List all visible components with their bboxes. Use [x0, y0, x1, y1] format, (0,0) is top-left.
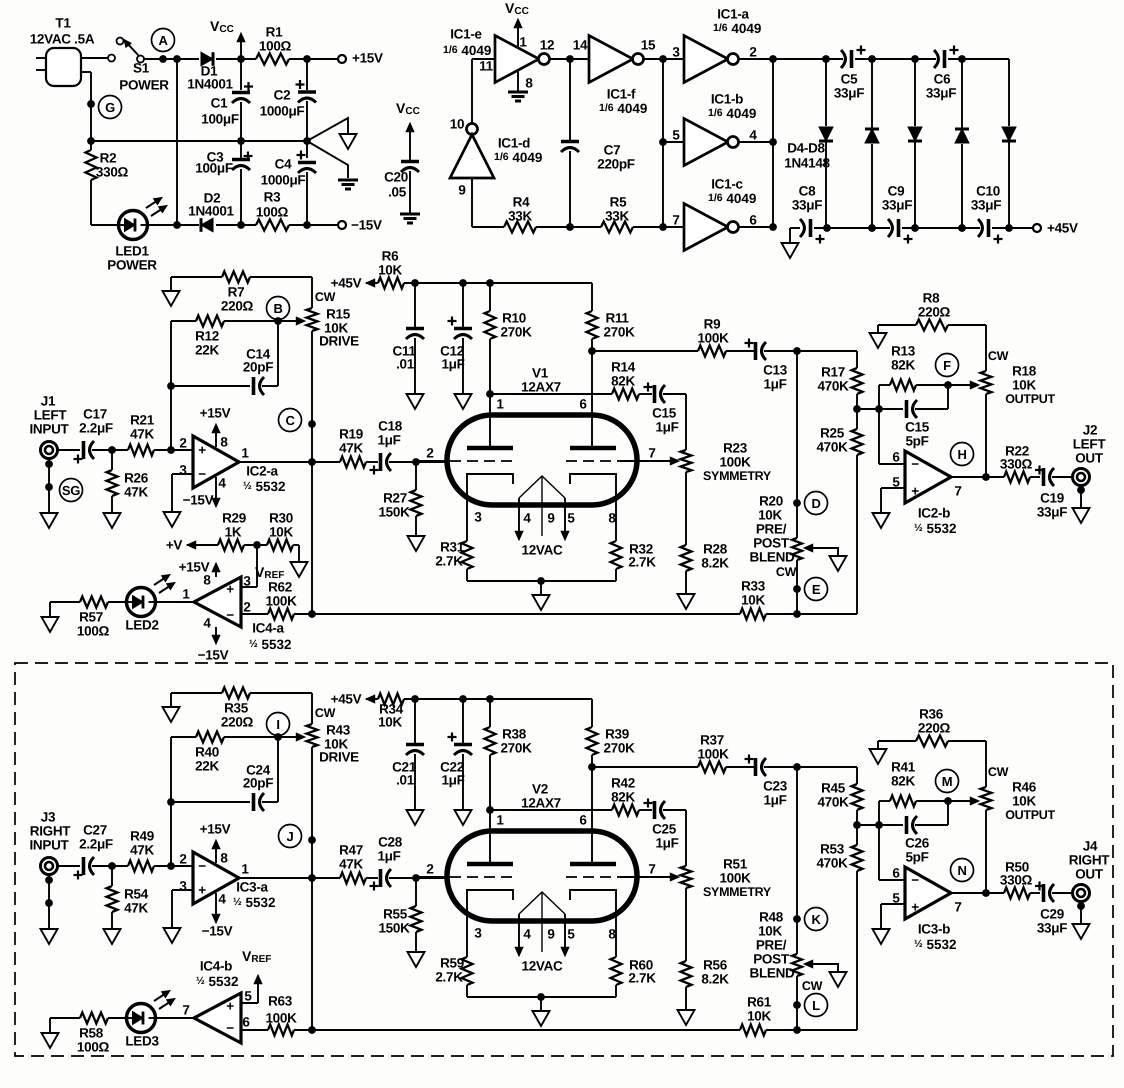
- net VREF: [241, 948, 271, 1003]
- power -15V: [183, 477, 220, 508]
- junction: [769, 55, 777, 63]
- junction: [566, 55, 574, 63]
- resistor R56 8.2K: [681, 958, 730, 1011]
- capacitor C11 .01: [392, 283, 424, 409]
- jack J1: [29, 394, 69, 459]
- svg-text:R51: R51: [723, 857, 748, 872]
- pin 1: [490, 810, 504, 862]
- plate: [570, 862, 616, 867]
- svg-text:5: 5: [567, 927, 575, 942]
- svg-text:3: 3: [672, 45, 680, 60]
- ground: [830, 972, 847, 987]
- svg-text:CW: CW: [988, 349, 1009, 363]
- svg-text:SYMMETRY: SYMMETRY: [703, 469, 772, 483]
- svg-text:R53: R53: [820, 842, 845, 857]
- junction: [769, 138, 777, 146]
- svg-text:H: H: [957, 447, 966, 462]
- svg-text:S1: S1: [133, 61, 150, 76]
- tube V2 12AX7: [447, 782, 637, 922]
- wire: [951, 476, 1004, 478]
- svg-text:R55: R55: [383, 907, 408, 922]
- tube V1 12AX7: [447, 366, 637, 506]
- node G: [87, 96, 121, 119]
- resistor R10 270K: [485, 283, 533, 394]
- node B: [267, 297, 290, 320]
- wire: [250, 693, 312, 724]
- wire: [881, 488, 905, 513]
- svg-text:2: 2: [179, 436, 186, 451]
- svg-text:−15V: −15V: [198, 648, 229, 663]
- svg-text:R48: R48: [759, 910, 784, 925]
- pot R48 10K PRE/POST BLEND: [750, 910, 823, 994]
- svg-text:POWER: POWER: [107, 258, 157, 273]
- svg-text:+15V: +15V: [200, 822, 231, 837]
- wire: [312, 1029, 740, 1031]
- resistor R25 470K: [816, 426, 862, 456]
- svg-text:8.2K: 8.2K: [701, 556, 729, 571]
- resistor R9 100K: [697, 317, 729, 357]
- svg-text:R49: R49: [130, 829, 154, 844]
- pot R15 10K DRIVE: [307, 290, 360, 349]
- node A: [152, 29, 175, 52]
- svg-text:−: −: [198, 859, 206, 874]
- junction: [167, 382, 175, 390]
- svg-text:R1: R1: [266, 25, 283, 40]
- resistor R36 220: [878, 707, 986, 747]
- svg-text:1: 1: [519, 35, 527, 50]
- svg-text:R29: R29: [222, 511, 246, 526]
- wire: [171, 276, 222, 278]
- svg-text:C23: C23: [763, 779, 788, 794]
- svg-text:CW: CW: [988, 765, 1009, 779]
- resistor R60 2.7K: [611, 957, 657, 997]
- capacitor C6 33uF: [926, 46, 959, 101]
- node N: [951, 859, 974, 882]
- grid: [416, 446, 516, 462]
- wire: [948, 58, 1009, 60]
- capacitor C12 1uF: [440, 283, 472, 409]
- svg-text:7: 7: [954, 900, 961, 915]
- svg-text:IC4-a: IC4-a: [252, 621, 284, 636]
- svg-text:LED2: LED2: [125, 618, 158, 633]
- terminal -15V: [338, 218, 382, 233]
- svg-text:+: +: [911, 484, 919, 499]
- junction: [237, 137, 245, 145]
- svg-text:R45: R45: [821, 781, 846, 796]
- ground: [830, 556, 847, 571]
- svg-text:C7: C7: [604, 143, 621, 158]
- wire: [311, 331, 313, 614]
- svg-text:R63: R63: [268, 994, 293, 1009]
- wire: [857, 824, 903, 826]
- svg-text:J1: J1: [41, 394, 56, 409]
- ground: [41, 513, 58, 528]
- junction: [944, 381, 952, 389]
- capacitor C8 33uF: [792, 184, 825, 244]
- svg-text:10K: 10K: [378, 263, 402, 278]
- svg-text:R36: R36: [919, 707, 944, 722]
- svg-text:8: 8: [220, 851, 228, 866]
- svg-text:2.2μF: 2.2μF: [79, 837, 113, 852]
- svg-text:14: 14: [573, 38, 588, 53]
- svg-text:1μF: 1μF: [377, 849, 400, 864]
- svg-text:1μF: 1μF: [763, 793, 786, 808]
- wire: [389, 877, 447, 879]
- svg-text:R59: R59: [440, 956, 464, 971]
- svg-text:K: K: [811, 912, 821, 927]
- svg-text:C8: C8: [799, 184, 816, 199]
- wire: [404, 282, 592, 284]
- svg-text:PRE/: PRE/: [756, 522, 787, 537]
- svg-text:1: 1: [496, 813, 504, 828]
- resistor R57 100: [50, 597, 128, 639]
- junction: [486, 806, 494, 814]
- junction: [173, 221, 181, 229]
- ground: [873, 929, 890, 944]
- resistor R11 270K: [587, 283, 636, 351]
- diode D7: [955, 59, 969, 228]
- wire: [878, 385, 880, 464]
- svg-text:1: 1: [182, 587, 190, 602]
- svg-text:R35: R35: [224, 701, 249, 716]
- svg-text:33μF: 33μF: [971, 198, 1001, 213]
- svg-text:220Ω: 220Ω: [918, 305, 951, 320]
- svg-text:12AX7: 12AX7: [521, 380, 561, 395]
- junction: [911, 55, 966, 63]
- svg-text:7: 7: [954, 484, 961, 499]
- svg-text:3: 3: [179, 463, 187, 478]
- wire: [45, 874, 53, 929]
- svg-text:LED1: LED1: [115, 244, 149, 259]
- ground: [870, 325, 887, 348]
- wire: [772, 59, 774, 227]
- wire: [796, 767, 798, 954]
- junction: [303, 55, 311, 63]
- capacitor C27 2.2uF: [74, 823, 113, 880]
- svg-text:R46: R46: [1012, 780, 1037, 795]
- svg-text:15: 15: [641, 38, 656, 53]
- net +V: [166, 538, 218, 553]
- junction: [853, 821, 861, 829]
- wire: [311, 747, 313, 1030]
- svg-text:E: E: [812, 582, 821, 597]
- resistor R53 470K: [816, 842, 862, 872]
- node L: [805, 994, 828, 1017]
- svg-text:R17: R17: [821, 365, 845, 380]
- LED1 POWER: [107, 198, 167, 273]
- capacitor C20 .05: [384, 100, 420, 223]
- svg-text:R61: R61: [747, 995, 772, 1010]
- svg-text:CW: CW: [802, 979, 823, 993]
- svg-text:100K: 100K: [719, 871, 751, 886]
- wire: [389, 461, 447, 463]
- capacitor C18 1uF: [370, 419, 403, 475]
- wire: [92, 449, 128, 451]
- svg-text:470K: 470K: [816, 440, 848, 455]
- svg-text:V2: V2: [532, 782, 548, 797]
- ground: [533, 581, 550, 610]
- svg-text:5: 5: [244, 989, 252, 1004]
- jack J4: [1069, 839, 1111, 902]
- svg-text:LEFT: LEFT: [34, 408, 68, 423]
- ground: [1073, 924, 1090, 939]
- power -15V: [198, 627, 229, 663]
- svg-text:82K: 82K: [611, 374, 635, 389]
- svg-text:POST: POST: [753, 536, 790, 551]
- wire: [404, 698, 592, 700]
- ground: [307, 118, 357, 149]
- op-amp IC3-a: [179, 851, 275, 910]
- svg-text:C: C: [285, 413, 295, 428]
- svg-text:½ 5532: ½ 5532: [196, 974, 239, 989]
- resistor R47 47K: [339, 843, 378, 884]
- wire: [856, 455, 858, 614]
- svg-text:1000μF: 1000μF: [261, 173, 306, 188]
- wire: [662, 59, 664, 227]
- svg-text:−: −: [226, 608, 234, 623]
- capacitor C15 5pF: [905, 400, 930, 449]
- pot R43 10K DRIVE: [307, 706, 360, 765]
- wire: [144, 58, 199, 60]
- grid: [416, 862, 516, 878]
- svg-text:R21: R21: [130, 413, 155, 428]
- wire: [796, 560, 798, 614]
- capacitor C10 33uF: [971, 184, 1003, 244]
- wire: [881, 904, 905, 929]
- svg-text:150K: 150K: [378, 921, 410, 936]
- svg-text:R56: R56: [703, 958, 728, 973]
- svg-text:R23: R23: [723, 441, 748, 456]
- cathode: [467, 890, 513, 957]
- svg-text:R38: R38: [502, 727, 527, 742]
- svg-text:12VAC .5A: 12VAC .5A: [30, 32, 95, 47]
- svg-text:R31: R31: [440, 540, 465, 555]
- svg-text:IC2-b: IC2-b: [918, 506, 950, 521]
- wire: [639, 809, 652, 811]
- resistor R55 150K: [378, 878, 421, 952]
- cathode: [570, 474, 616, 541]
- resistor R63 100K: [241, 994, 313, 1036]
- svg-text:½ 5532: ½ 5532: [914, 937, 957, 952]
- svg-text:CW: CW: [776, 565, 797, 579]
- capacitor C15 1uF: [644, 383, 679, 435]
- wiper arrow: [278, 317, 305, 325]
- svg-text:J4: J4: [1083, 839, 1098, 854]
- svg-text:4: 4: [749, 128, 757, 143]
- ground: [678, 594, 695, 609]
- inverter IC1-c: [672, 177, 757, 251]
- resistor R7 220: [221, 272, 254, 314]
- junction: [911, 224, 966, 232]
- resistor R58 100: [50, 1013, 128, 1055]
- junction: [237, 55, 245, 63]
- capacitor C17 2.2uF: [74, 407, 113, 464]
- wire: [238, 461, 340, 463]
- svg-text:.05: .05: [388, 185, 407, 200]
- resistor R30 10K: [267, 511, 299, 563]
- capacitor C19 33uF: [1035, 466, 1067, 520]
- svg-text:20pF: 20pF: [243, 776, 273, 791]
- wire: [467, 580, 616, 582]
- svg-text:+45V: +45V: [331, 276, 362, 291]
- svg-text:2.2μF: 2.2μF: [79, 421, 113, 436]
- resistor R22 330: [1000, 444, 1040, 483]
- ground: [104, 513, 121, 528]
- svg-text:+: +: [226, 582, 234, 597]
- svg-text:33μF: 33μF: [1037, 505, 1067, 520]
- jack J3: [29, 810, 71, 875]
- svg-text:OUT: OUT: [1075, 867, 1104, 882]
- wire: [951, 892, 1004, 894]
- svg-text:R12: R12: [195, 329, 219, 344]
- svg-text:2: 2: [749, 45, 756, 60]
- svg-text:R26: R26: [124, 471, 149, 486]
- node E: [805, 578, 828, 601]
- svg-text:C20: C20: [384, 170, 408, 185]
- ground: [870, 741, 887, 764]
- junction: [793, 347, 801, 355]
- inverter IC1-f: [573, 36, 656, 116]
- junction: [659, 138, 667, 146]
- wire: [726, 766, 754, 768]
- svg-text:11: 11: [479, 59, 493, 74]
- resistor R6 10K: [378, 249, 404, 289]
- junction: [411, 695, 494, 703]
- svg-text:C28: C28: [378, 835, 403, 850]
- svg-text:RIGHT: RIGHT: [30, 824, 72, 839]
- svg-text:1N4148: 1N4148: [784, 156, 830, 171]
- svg-text:R11: R11: [605, 311, 629, 326]
- svg-text:100K: 100K: [265, 1011, 297, 1026]
- pot R46 10K OUTPUT: [981, 765, 1056, 822]
- svg-text:IC3-a: IC3-a: [236, 880, 268, 895]
- svg-text:−15V: −15V: [351, 218, 382, 233]
- svg-text:270K: 270K: [603, 741, 635, 756]
- capacitor C7 220pF: [561, 59, 635, 227]
- wire: [773, 58, 843, 60]
- wire: [155, 601, 195, 603]
- diode D5: [865, 59, 879, 228]
- svg-text:R39: R39: [605, 727, 629, 742]
- op-amp IC2-a: [179, 435, 285, 494]
- power +15V: [200, 406, 231, 448]
- wire: [147, 224, 200, 226]
- svg-text:+V: +V: [166, 538, 183, 553]
- capacitor C2 1000uF: [260, 59, 316, 141]
- wire: [592, 766, 698, 768]
- capacitor C3 100uF: [195, 141, 252, 225]
- wire: [726, 350, 754, 352]
- svg-text:R4: R4: [513, 195, 530, 210]
- svg-text:R13: R13: [891, 344, 916, 359]
- ground: [41, 929, 58, 944]
- svg-text:R54: R54: [124, 887, 149, 902]
- svg-text:C4: C4: [275, 157, 292, 172]
- svg-text:C29: C29: [1040, 907, 1064, 922]
- svg-text:R5: R5: [610, 195, 627, 210]
- resistor R17 470K: [817, 365, 862, 395]
- svg-text:R58: R58: [79, 1026, 104, 1041]
- svg-text:INPUT: INPUT: [29, 422, 69, 437]
- svg-text:LEFT: LEFT: [1073, 437, 1107, 452]
- wire: [663, 394, 686, 450]
- wire: [856, 767, 858, 784]
- junction: [108, 862, 116, 870]
- svg-text:IC4-b: IC4-b: [200, 959, 232, 974]
- node K: [805, 908, 828, 931]
- switch S1 POWER: [117, 38, 170, 93]
- ground: [164, 512, 181, 527]
- svg-text:47K: 47K: [124, 901, 148, 916]
- svg-text:C17: C17: [83, 407, 107, 422]
- wire: [490, 809, 612, 811]
- svg-text:33μF: 33μF: [926, 86, 956, 101]
- svg-text:F: F: [943, 358, 951, 373]
- resistor R19 47K: [339, 427, 378, 468]
- junction: [87, 137, 95, 145]
- svg-text:1N4001: 1N4001: [187, 77, 233, 92]
- junction: [982, 473, 990, 481]
- op-amp IC2-b: [892, 450, 961, 536]
- resistor R14 82K: [611, 360, 639, 400]
- wire: [879, 463, 905, 465]
- capacitor C23 1uF: [745, 755, 788, 808]
- junction: [982, 889, 990, 897]
- svg-text:100Ω: 100Ω: [259, 39, 292, 54]
- svg-text:100μF: 100μF: [201, 112, 239, 127]
- resistor R29 1K: [218, 511, 267, 551]
- wire: [879, 879, 905, 881]
- wire: [490, 393, 612, 395]
- wire: [592, 350, 698, 352]
- svg-text:1/6 4049: 1/6 4049: [443, 43, 491, 58]
- junction: [1005, 224, 1013, 232]
- svg-text:20pF: 20pF: [243, 360, 273, 375]
- svg-text:270K: 270K: [500, 325, 532, 340]
- svg-text:DRIVE: DRIVE: [319, 334, 359, 349]
- svg-text:6: 6: [579, 813, 587, 828]
- node F: [936, 354, 959, 377]
- resistor R40 22K: [171, 732, 278, 774]
- resistor R54 47K: [107, 866, 149, 929]
- svg-text:R25: R25: [820, 426, 845, 441]
- wire: [764, 350, 857, 352]
- svg-text:150K: 150K: [378, 505, 410, 520]
- node H: [951, 443, 974, 466]
- svg-text:+15V: +15V: [179, 560, 210, 575]
- wire: [472, 59, 495, 126]
- svg-text:IC2-a: IC2-a: [246, 464, 278, 479]
- junction: [167, 446, 175, 454]
- op-amp IC4-b: [182, 959, 252, 1044]
- diode D1 1N4001: [187, 52, 256, 91]
- wire: [985, 394, 987, 477]
- node SG: [0, 0, 1, 1]
- svg-text:33K: 33K: [508, 209, 532, 224]
- svg-text:OUTPUT: OUTPUT: [1005, 392, 1055, 406]
- LED2: [125, 575, 175, 633]
- plate: [570, 446, 616, 451]
- svg-text:1: 1: [241, 446, 249, 461]
- svg-text:2.7K: 2.7K: [628, 971, 656, 986]
- svg-text:100K: 100K: [265, 594, 297, 609]
- diode D4: [819, 59, 833, 228]
- svg-text:2.7K: 2.7K: [628, 555, 656, 570]
- transformer T1: [30, 16, 115, 142]
- svg-text:47K: 47K: [339, 857, 363, 872]
- wiper arrow: [804, 544, 838, 556]
- svg-text:100Ω: 100Ω: [256, 205, 289, 220]
